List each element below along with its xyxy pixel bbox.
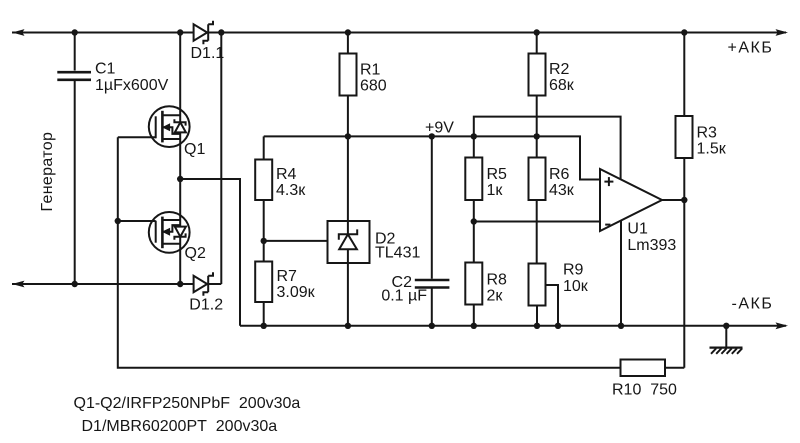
arrow top-right (+AKB) [776,29,789,36]
arrow right (-AKB) [776,322,789,329]
svg-text:2к: 2к [487,288,504,305]
wire regulator bottom rail (-AKB) [240,325,786,327]
wire top rail (generator phase A to +AKB) [12,32,786,34]
node dot R2 top [534,29,540,35]
svg-text:D1.2: D1.2 [189,296,223,313]
wire R6 bottom to R9 [536,200,538,264]
resistor R10 [621,360,666,377]
resistor R6 [529,158,546,201]
svg-text:Q2: Q2 [185,245,206,262]
wire R8 bottom [473,305,475,326]
svg-text:D1/MBR60200PT 200v30a: D1/MBR60200PT 200v30a [82,418,278,435]
wire op-amp V+ branch [474,117,621,180]
wire R5 column top [473,136,475,157]
resistor R8 [465,263,482,305]
resistor R4 [255,160,272,201]
node dot R2-R6 +9V [534,133,540,139]
wire R2 column top [536,33,538,54]
svg-text:4.3к: 4.3к [276,182,306,199]
wire Q2 source bus [179,179,181,284]
wire inverting input line [474,221,600,223]
arrow bottom-left generator [12,281,25,288]
svg-text:+АКБ: +АКБ [728,40,774,57]
node dot R1 top [345,29,351,35]
svg-text:+9V: +9V [425,120,454,137]
svg-text:680: 680 [360,78,387,95]
svg-text:1к: 1к [487,182,504,199]
svg-text:Lm393: Lm393 [627,237,676,254]
svg-text:R6: R6 [549,166,570,183]
svg-text:Q1: Q1 [184,141,205,158]
node dot ground rail [723,323,729,329]
node dot Q2 source [177,281,183,287]
resistor R9 [529,264,546,306]
resistor R2 [529,54,546,96]
wire R9 bottom [536,306,538,326]
diode D1.2 [194,272,213,296]
wire R3 bottom to output node [683,158,685,200]
svg-text:43к: 43к [549,182,575,199]
svg-text:TL431: TL431 [375,245,420,262]
op-amp U1 [600,169,662,231]
wire op-amp V- pin [620,221,622,326]
svg-text:Генератор: Генератор [39,132,56,212]
wire Q1 drain bus [179,33,181,180]
wire D1 cathode bus vertical [220,33,222,285]
svg-text:R9: R9 [563,262,584,279]
node dot Q1-Q2 midpoint [177,176,183,182]
resistor R5 [465,158,482,201]
svg-text:R8: R8 [487,272,508,289]
resistor R3 [676,116,693,158]
svg-text:-АКБ: -АКБ [732,296,774,313]
wire R1 column top [347,33,349,54]
capacitor C1 [57,72,91,80]
capacitor C2 [415,280,450,288]
wire R5 bottom to inverting node [473,200,475,263]
node dot R9 wiper rail [555,323,561,329]
wire R7 bottom [263,302,265,326]
wire R3 column top [683,33,685,117]
arrow top-left [12,29,25,36]
node dot D2 bottom rail [345,323,351,329]
svg-text:Q1-Q2/IRFP250NPbF 200v30a: Q1-Q2/IRFP250NPbF 200v30a [74,395,301,412]
wire midpoint to regulator common [180,179,240,326]
svg-text:R7: R7 [277,268,298,285]
node dot R5 +9V [471,133,477,139]
wire R10 right [665,367,684,369]
wire C2 column lower [431,289,433,326]
ground symbol [710,348,743,354]
node dot R7 bottom rail [261,323,267,329]
wire R2 bottom to +9V [536,96,538,158]
svg-text:R4: R4 [276,166,297,183]
wire D2 reference [264,240,328,242]
node dot C1 bottom [72,281,78,287]
svg-text:U1: U1 [627,221,648,238]
node dot op-amp output [681,197,687,203]
wire C1 column upper [74,33,76,71]
svg-text:R5: R5 [487,166,508,183]
wire C2 column upper [431,136,433,278]
shunt regulator D2 TL431 [328,221,370,263]
wire R1 bottom to +9V [347,96,349,222]
svg-text:10к: 10к [563,278,589,295]
op-amp minus sign [605,224,610,226]
svg-text:D1.1: D1.1 [191,45,225,62]
svg-text:C1: C1 [95,60,116,77]
wire R9 wiper tap [546,285,559,326]
wire gate bus [118,137,621,367]
node dot R1 +9V [345,133,351,139]
wire R4 to R7 and D2 ref node [263,200,265,262]
svg-text:R1: R1 [360,62,381,79]
resistor R7 [255,262,272,303]
wire Q1 gate [118,136,156,138]
diode D1.1 [194,21,213,45]
node dot D1 cathode top [218,29,224,35]
wire generator bottom rail (phase B) [12,283,221,285]
svg-text:R10 750: R10 750 [612,382,677,399]
node dot R8 bottom rail [471,323,477,329]
transistor Q2 [149,212,190,253]
wire R4 top feed [263,136,265,159]
node dot C1 top [72,29,78,35]
node dot inverting node [471,218,477,224]
svg-text:68к: 68к [549,77,575,94]
node dot R3 top [681,29,687,35]
node dot C2 +9V [429,133,435,139]
node dot R4-R7-D2 [261,238,267,244]
wire D2 bottom to rail [347,263,349,326]
node dot gate bus Q2 [115,218,121,224]
wire +9V rail [264,136,600,179]
svg-text:R3: R3 [697,125,718,142]
svg-text:0.1 µF: 0.1 µF [381,287,427,304]
node dot R9 bottom rail [534,323,540,329]
transistor Q1 [149,106,190,147]
svg-text:3.09к: 3.09к [277,284,316,301]
node dot C2 bottom rail [429,323,435,329]
svg-text:1µFx600V: 1µFx600V [95,77,169,94]
node dot Q1 drain [177,29,183,35]
ground stub [725,326,727,347]
node dot op-amp V- rail [618,323,624,329]
svg-text:1.5к: 1.5к [697,141,727,158]
wire output node down to R10 [683,200,685,368]
wire op-amp output [662,199,684,201]
op-amp plus sign [604,177,613,186]
wire C1 column lower [74,81,76,285]
svg-text:R2: R2 [549,61,570,78]
wire Q2 gate [118,220,156,222]
resistor R1 [340,54,357,96]
